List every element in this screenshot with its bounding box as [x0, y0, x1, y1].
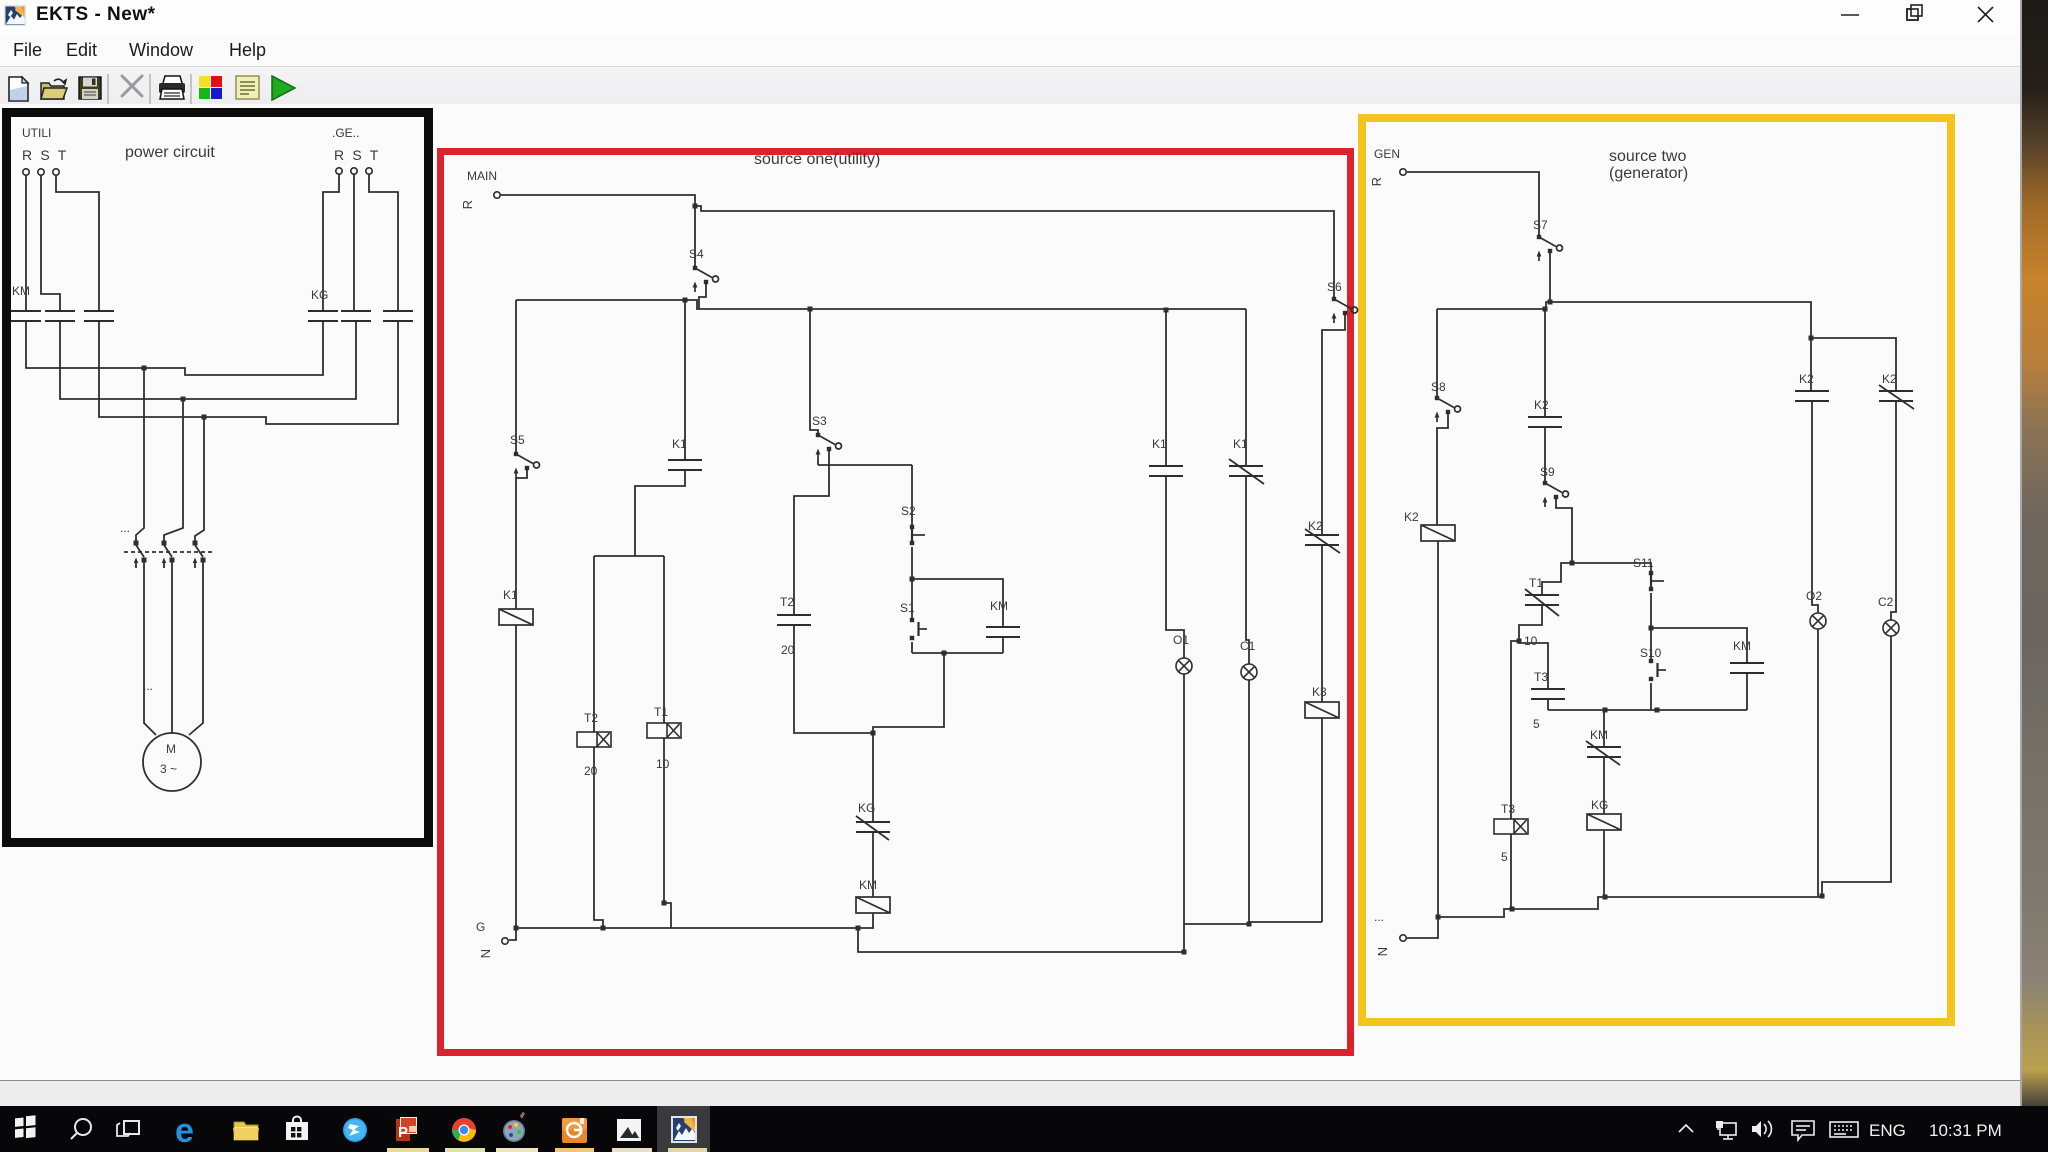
svg-text:T1: T1 [654, 705, 668, 719]
svg-text:O1: O1 [1173, 633, 1189, 647]
svg-text:T3: T3 [1534, 670, 1548, 684]
svg-text:C2: C2 [1878, 595, 1894, 609]
svg-text:T1: T1 [1529, 576, 1543, 590]
svg-text:3 ~: 3 ~ [160, 762, 177, 776]
svg-text:...: ... [120, 521, 130, 535]
svg-text:...: ... [1374, 910, 1384, 924]
svg-text:S10: S10 [1640, 646, 1662, 660]
svg-text:5: 5 [1501, 850, 1508, 864]
svg-text:T3: T3 [1501, 802, 1515, 816]
svg-text:e: e [175, 1112, 194, 1150]
svg-text:S3: S3 [812, 414, 827, 428]
svg-text:S7: S7 [1533, 218, 1548, 232]
svg-text:.GE..: .GE.. [332, 126, 359, 140]
svg-text:N: N [1375, 947, 1390, 956]
svg-text:K2: K2 [1404, 510, 1419, 524]
svg-text:MAIN: MAIN [467, 169, 497, 183]
svg-text:R: R [1369, 177, 1384, 186]
svg-text:source one(utility): source one(utility) [754, 151, 880, 168]
svg-text:S8: S8 [1431, 380, 1446, 394]
svg-text:KM: KM [12, 284, 30, 298]
svg-text:...: ... [143, 679, 153, 693]
svg-text:KM: KM [859, 878, 877, 892]
svg-text:M: M [166, 742, 176, 756]
svg-text:20: 20 [781, 643, 795, 657]
svg-text:R: R [460, 200, 475, 209]
svg-text:KG: KG [1591, 798, 1608, 812]
svg-text:R S T: R S T [22, 147, 69, 163]
svg-text:C1: C1 [1240, 639, 1256, 653]
svg-text:10: 10 [656, 757, 670, 771]
svg-text:UTILI: UTILI [22, 126, 51, 140]
svg-text:N: N [478, 949, 493, 958]
svg-text:T2: T2 [584, 711, 598, 725]
svg-text:S9: S9 [1540, 465, 1555, 479]
svg-text:10: 10 [1524, 634, 1538, 648]
svg-text:20: 20 [584, 764, 598, 778]
svg-text:KM: KM [1733, 639, 1751, 653]
svg-text:K2: K2 [1534, 398, 1549, 412]
svg-text:K2: K2 [1799, 372, 1814, 386]
svg-text:S4: S4 [689, 247, 704, 261]
svg-text:K2: K2 [1882, 372, 1897, 386]
svg-text:K2: K2 [1308, 519, 1323, 533]
svg-text:KG: KG [311, 288, 328, 302]
svg-text:S5: S5 [510, 433, 525, 447]
svg-text:KM: KM [1590, 728, 1608, 742]
svg-text:S6: S6 [1327, 280, 1342, 294]
svg-text:K3: K3 [1312, 685, 1327, 699]
svg-text:K1: K1 [503, 588, 518, 602]
svg-text:GEN: GEN [1374, 147, 1400, 161]
svg-text:K1: K1 [1152, 437, 1167, 451]
svg-text:(generator): (generator) [1609, 165, 1688, 182]
svg-text:O2: O2 [1806, 589, 1822, 603]
svg-text:S1: S1 [900, 601, 915, 615]
svg-text:source two: source two [1609, 148, 1686, 165]
svg-text:G: G [476, 920, 485, 934]
svg-text:T2: T2 [780, 595, 794, 609]
svg-text:power circuit: power circuit [125, 144, 215, 161]
svg-text:KG: KG [858, 801, 875, 815]
svg-text:K1: K1 [1233, 437, 1248, 451]
svg-text:S11: S11 [1633, 556, 1654, 570]
svg-text:R S T: R S T [334, 147, 381, 163]
svg-text:10:31 PM: 10:31 PM [1929, 1121, 2002, 1140]
svg-text:KM: KM [990, 599, 1008, 613]
svg-text:P: P [398, 1124, 408, 1141]
svg-text:K1: K1 [672, 437, 687, 451]
svg-text:5: 5 [1533, 717, 1540, 731]
svg-text:S2: S2 [901, 504, 916, 518]
svg-text:ENG: ENG [1869, 1121, 1906, 1140]
